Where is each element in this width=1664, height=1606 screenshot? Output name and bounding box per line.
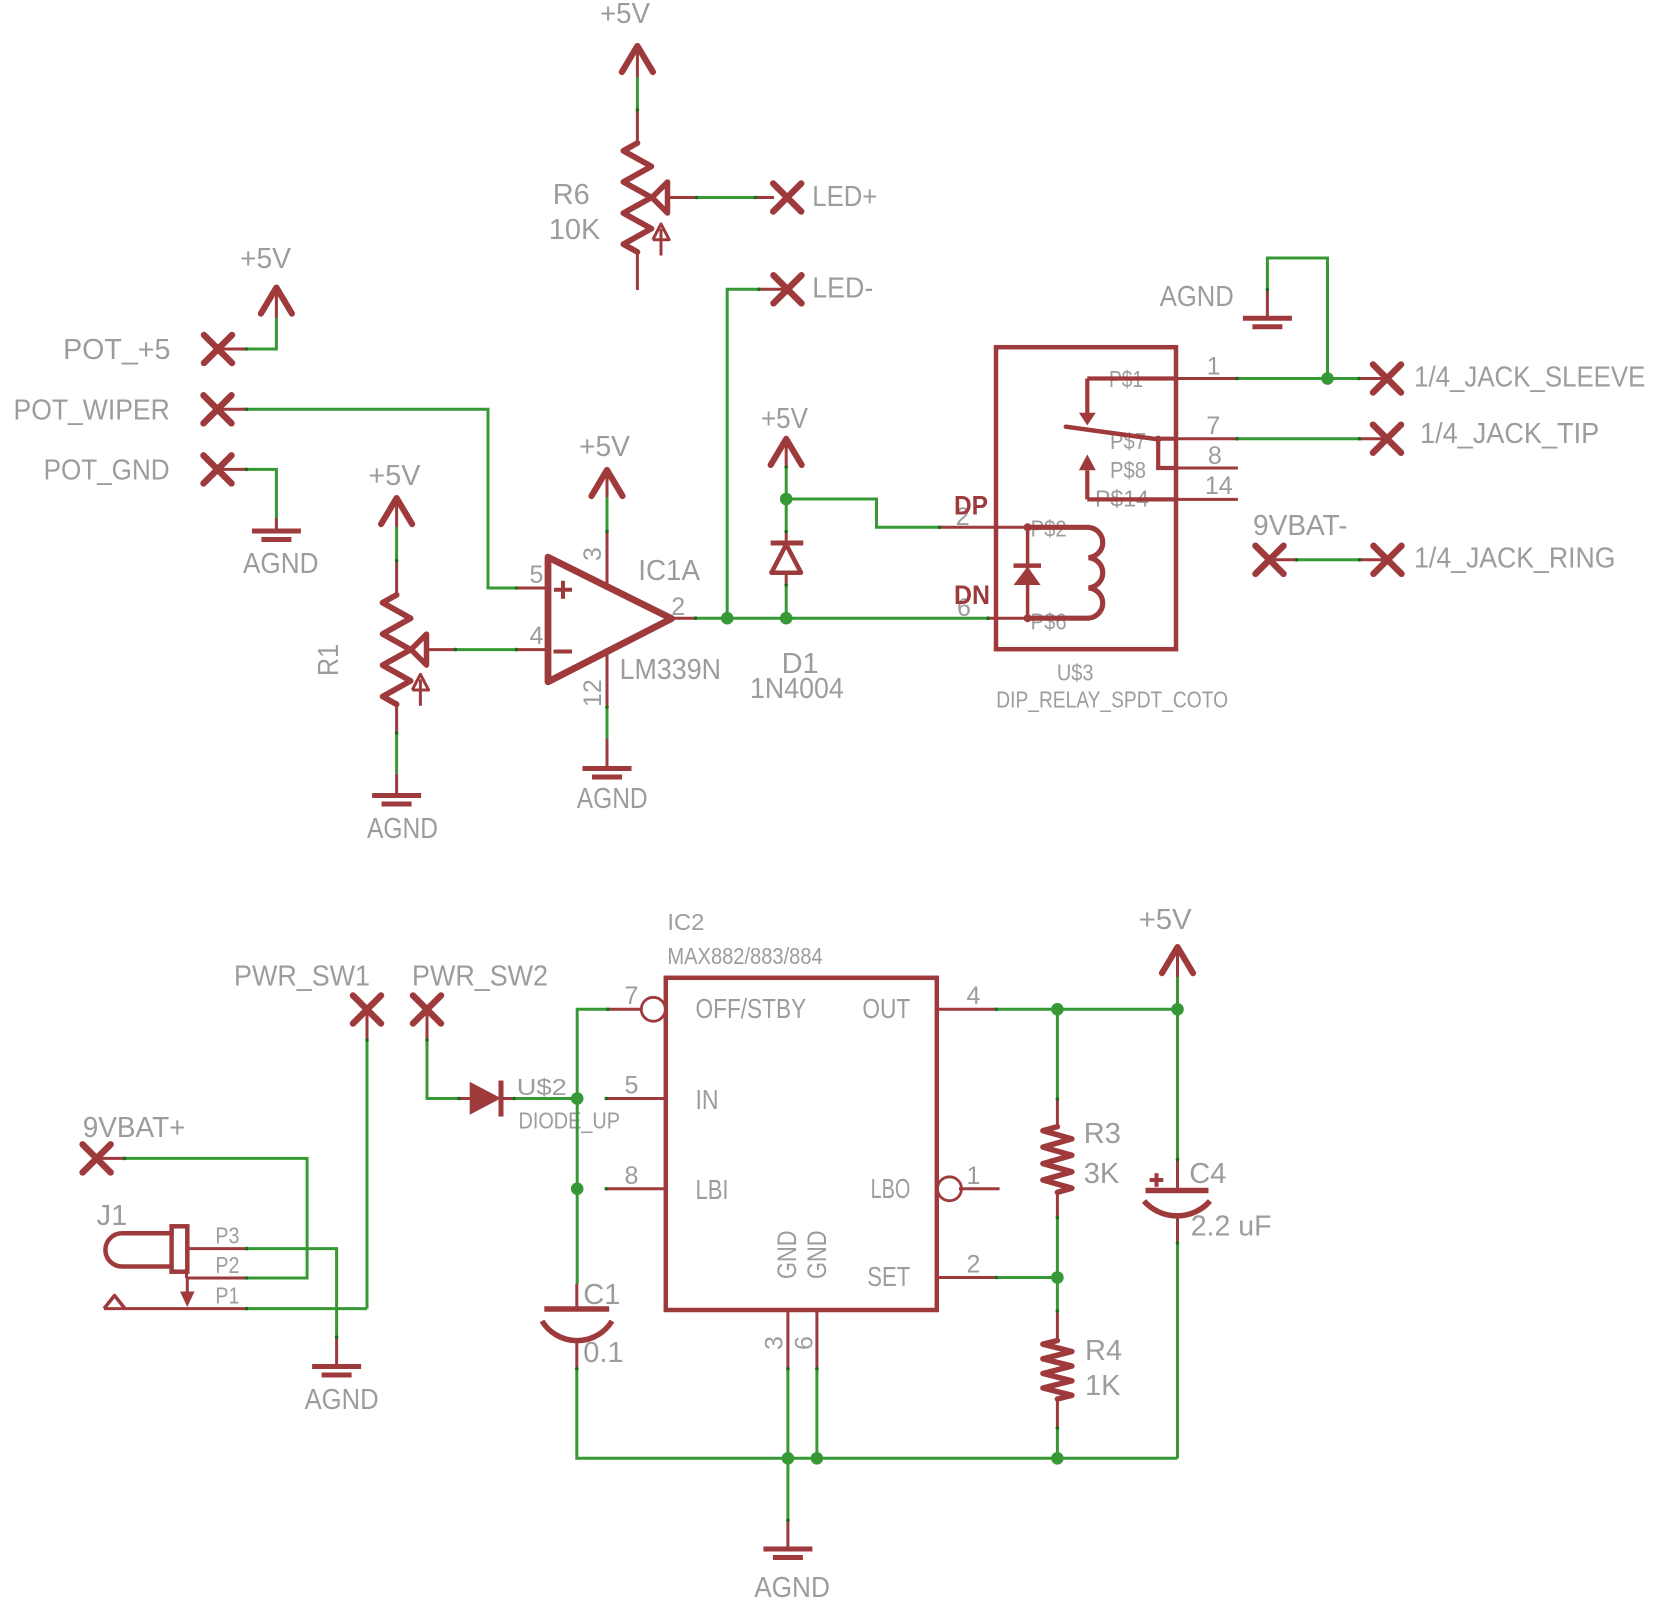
svg-text:IN: IN [696,1084,719,1115]
svg-text:C1: C1 [583,1279,620,1311]
svg-text:OFF/STBY: OFF/STBY [696,993,807,1024]
svg-text:1/4_JACK_RING: 1/4_JACK_RING [1414,543,1615,575]
svg-text:POT_WIPER: POT_WIPER [14,395,170,427]
svg-text:LED-: LED- [812,273,873,305]
svg-text:P2: P2 [215,1252,239,1278]
svg-text:U$3: U$3 [1057,660,1094,686]
svg-text:2: 2 [967,1251,981,1279]
svg-text:+5V: +5V [240,243,292,275]
svg-text:1: 1 [1207,353,1221,381]
svg-text:SET: SET [867,1261,910,1292]
svg-text:LBI: LBI [696,1174,729,1205]
svg-text:7: 7 [625,982,639,1010]
svg-text:OUT: OUT [862,993,910,1024]
svg-text:AGND: AGND [305,1384,379,1416]
svg-text:2.2 uF: 2.2 uF [1191,1211,1272,1243]
svg-text:IC2: IC2 [667,909,704,935]
svg-text:3: 3 [760,1336,788,1350]
svg-text:LM339N: LM339N [620,654,721,686]
svg-text:3: 3 [579,547,607,561]
svg-text:GND: GND [802,1231,832,1280]
svg-text:8: 8 [1208,442,1222,470]
svg-text:0.1: 0.1 [583,1337,623,1369]
svg-text:5: 5 [530,561,544,589]
svg-text:J1: J1 [97,1200,128,1232]
svg-text:9VBAT+: 9VBAT+ [83,1112,186,1144]
svg-text:C4: C4 [1189,1158,1226,1190]
svg-text:AGND: AGND [754,1572,830,1604]
svg-text:4: 4 [967,982,981,1010]
svg-text:P3: P3 [215,1223,239,1249]
svg-text:14: 14 [1205,472,1233,500]
svg-text:6: 6 [791,1336,819,1350]
svg-text:+5V: +5V [579,431,631,463]
svg-text:+5V: +5V [368,460,421,492]
svg-text:2: 2 [671,593,685,621]
svg-text:DIP_RELAY_SPDT_COTO: DIP_RELAY_SPDT_COTO [996,686,1228,712]
svg-text:9VBAT-: 9VBAT- [1253,510,1348,542]
svg-text:AGND: AGND [367,813,438,845]
svg-text:POT_GND: POT_GND [44,455,170,487]
svg-text:3K: 3K [1084,1158,1120,1190]
svg-text:AGND: AGND [243,548,319,580]
svg-text:5: 5 [625,1072,639,1100]
svg-text:R1: R1 [313,644,345,676]
svg-text:DN: DN [954,580,990,610]
svg-text:1: 1 [967,1162,981,1190]
svg-text:IC1A: IC1A [638,555,700,587]
svg-text:1K: 1K [1085,1370,1121,1402]
svg-text:PWR_SW1: PWR_SW1 [234,961,370,993]
svg-text:1/4_JACK_SLEEVE: 1/4_JACK_SLEEVE [1414,362,1645,394]
svg-text:7: 7 [1206,412,1220,440]
svg-text:R3: R3 [1084,1118,1121,1150]
svg-text:1/4_JACK_TIP: 1/4_JACK_TIP [1420,418,1599,450]
svg-text:MAX882/883/884: MAX882/883/884 [667,943,822,969]
svg-text:4: 4 [530,622,544,650]
svg-text:POT_+5: POT_+5 [63,334,170,366]
svg-text:R4: R4 [1085,1335,1122,1367]
svg-text:1N4004: 1N4004 [750,673,844,705]
svg-text:8: 8 [625,1162,639,1190]
svg-text:DIODE_UP: DIODE_UP [519,1108,621,1134]
svg-text:R6: R6 [553,179,590,211]
svg-text:AGND: AGND [1160,281,1234,313]
svg-text:+5V: +5V [761,403,809,435]
svg-text:LED+: LED+ [812,181,877,213]
svg-text:PWR_SW2: PWR_SW2 [412,961,548,993]
svg-text:GND: GND [772,1231,802,1280]
svg-text:U$2: U$2 [517,1074,567,1100]
svg-text:LBO: LBO [871,1173,911,1204]
svg-text:P1: P1 [215,1283,239,1309]
svg-text:P$6: P$6 [1031,609,1067,635]
svg-text:P$8: P$8 [1110,457,1146,483]
svg-text:DP: DP [954,491,988,521]
svg-text:+5V: +5V [1139,904,1193,936]
svg-text:+5V: +5V [600,0,651,30]
svg-text:10K: 10K [549,214,601,246]
svg-text:12: 12 [579,679,607,707]
svg-text:AGND: AGND [577,783,648,815]
